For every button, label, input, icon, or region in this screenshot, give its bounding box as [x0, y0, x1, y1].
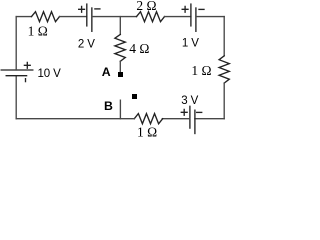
svg-text:4 Ω: 4 Ω	[129, 41, 149, 56]
minus sign of 3V battery	[197, 111, 202, 113]
battery B4 10V positive plate	[1, 69, 33, 71]
svg-text:2 Ω: 2 Ω	[136, 0, 156, 13]
wire node B stub	[119, 100, 121, 119]
svg-text:A: A	[102, 65, 111, 79]
svg-text:3 V: 3 V	[181, 95, 198, 107]
wire bottom-left segment	[16, 118, 134, 120]
wire right side lower	[223, 83, 225, 119]
svg-text:1 Ω: 1 Ω	[137, 125, 157, 140]
battery B4 10V negative plate	[6, 75, 26, 77]
wire top-right segment	[196, 16, 224, 18]
battery B2 1V positive plate	[190, 4, 192, 26]
resistor R5 4 ohm (middle, vertical)	[115, 34, 125, 61]
svg-text:2 V: 2 V	[78, 39, 95, 51]
plus sign of 2V battery	[79, 6, 85, 12]
wire junction stub down to 4-ohm resistor	[119, 17, 121, 35]
svg-text:1 Ω: 1 Ω	[191, 63, 211, 78]
plus sign of 1V battery	[182, 6, 188, 12]
minus sign of 1V battery	[199, 8, 204, 10]
resistor R2 2 ohm (top middle)	[137, 12, 165, 22]
resistor R1 1 ohm (top left)	[32, 12, 60, 22]
svg-text:1 Ω: 1 Ω	[28, 24, 48, 39]
plus sign of 3V battery	[181, 109, 187, 115]
resistor R4 1 ohm (bottom)	[134, 114, 162, 124]
svg-text:B: B	[104, 99, 113, 113]
minus sign of 10V battery	[25, 79, 27, 82]
node A terminal square	[118, 72, 123, 77]
battery B3 3V negative plate	[194, 110, 196, 133]
battery B2 1V negative plate	[195, 8, 197, 31]
wire between 2V battery and 2-ohm resistor (junction at node)	[92, 16, 137, 18]
wire between R2 and 1V battery	[165, 16, 191, 18]
minus sign of 2V battery	[95, 8, 100, 10]
svg-text:10 V: 10 V	[37, 68, 61, 80]
wire bottom-right segment	[195, 118, 224, 120]
wire left side lower	[15, 76, 17, 119]
wire right side upper	[223, 17, 225, 56]
battery B1 2V negative plate	[91, 8, 93, 31]
battery B1 2V positive plate	[86, 4, 88, 26]
wire left side upper	[15, 17, 17, 70]
resistor R3 1 ohm (right side, vertical)	[219, 56, 229, 83]
svg-text:1 V: 1 V	[182, 37, 199, 49]
plus sign of 10V battery	[24, 62, 30, 68]
wire between 3V battery and bottom resistor	[162, 118, 190, 120]
wire from R5 to node A terminal	[119, 61, 121, 72]
battery B3 3V positive plate	[189, 106, 191, 128]
wire between R1 and 2V battery	[60, 16, 87, 18]
node B terminal square	[132, 94, 137, 99]
wire top-left segment	[16, 16, 31, 18]
